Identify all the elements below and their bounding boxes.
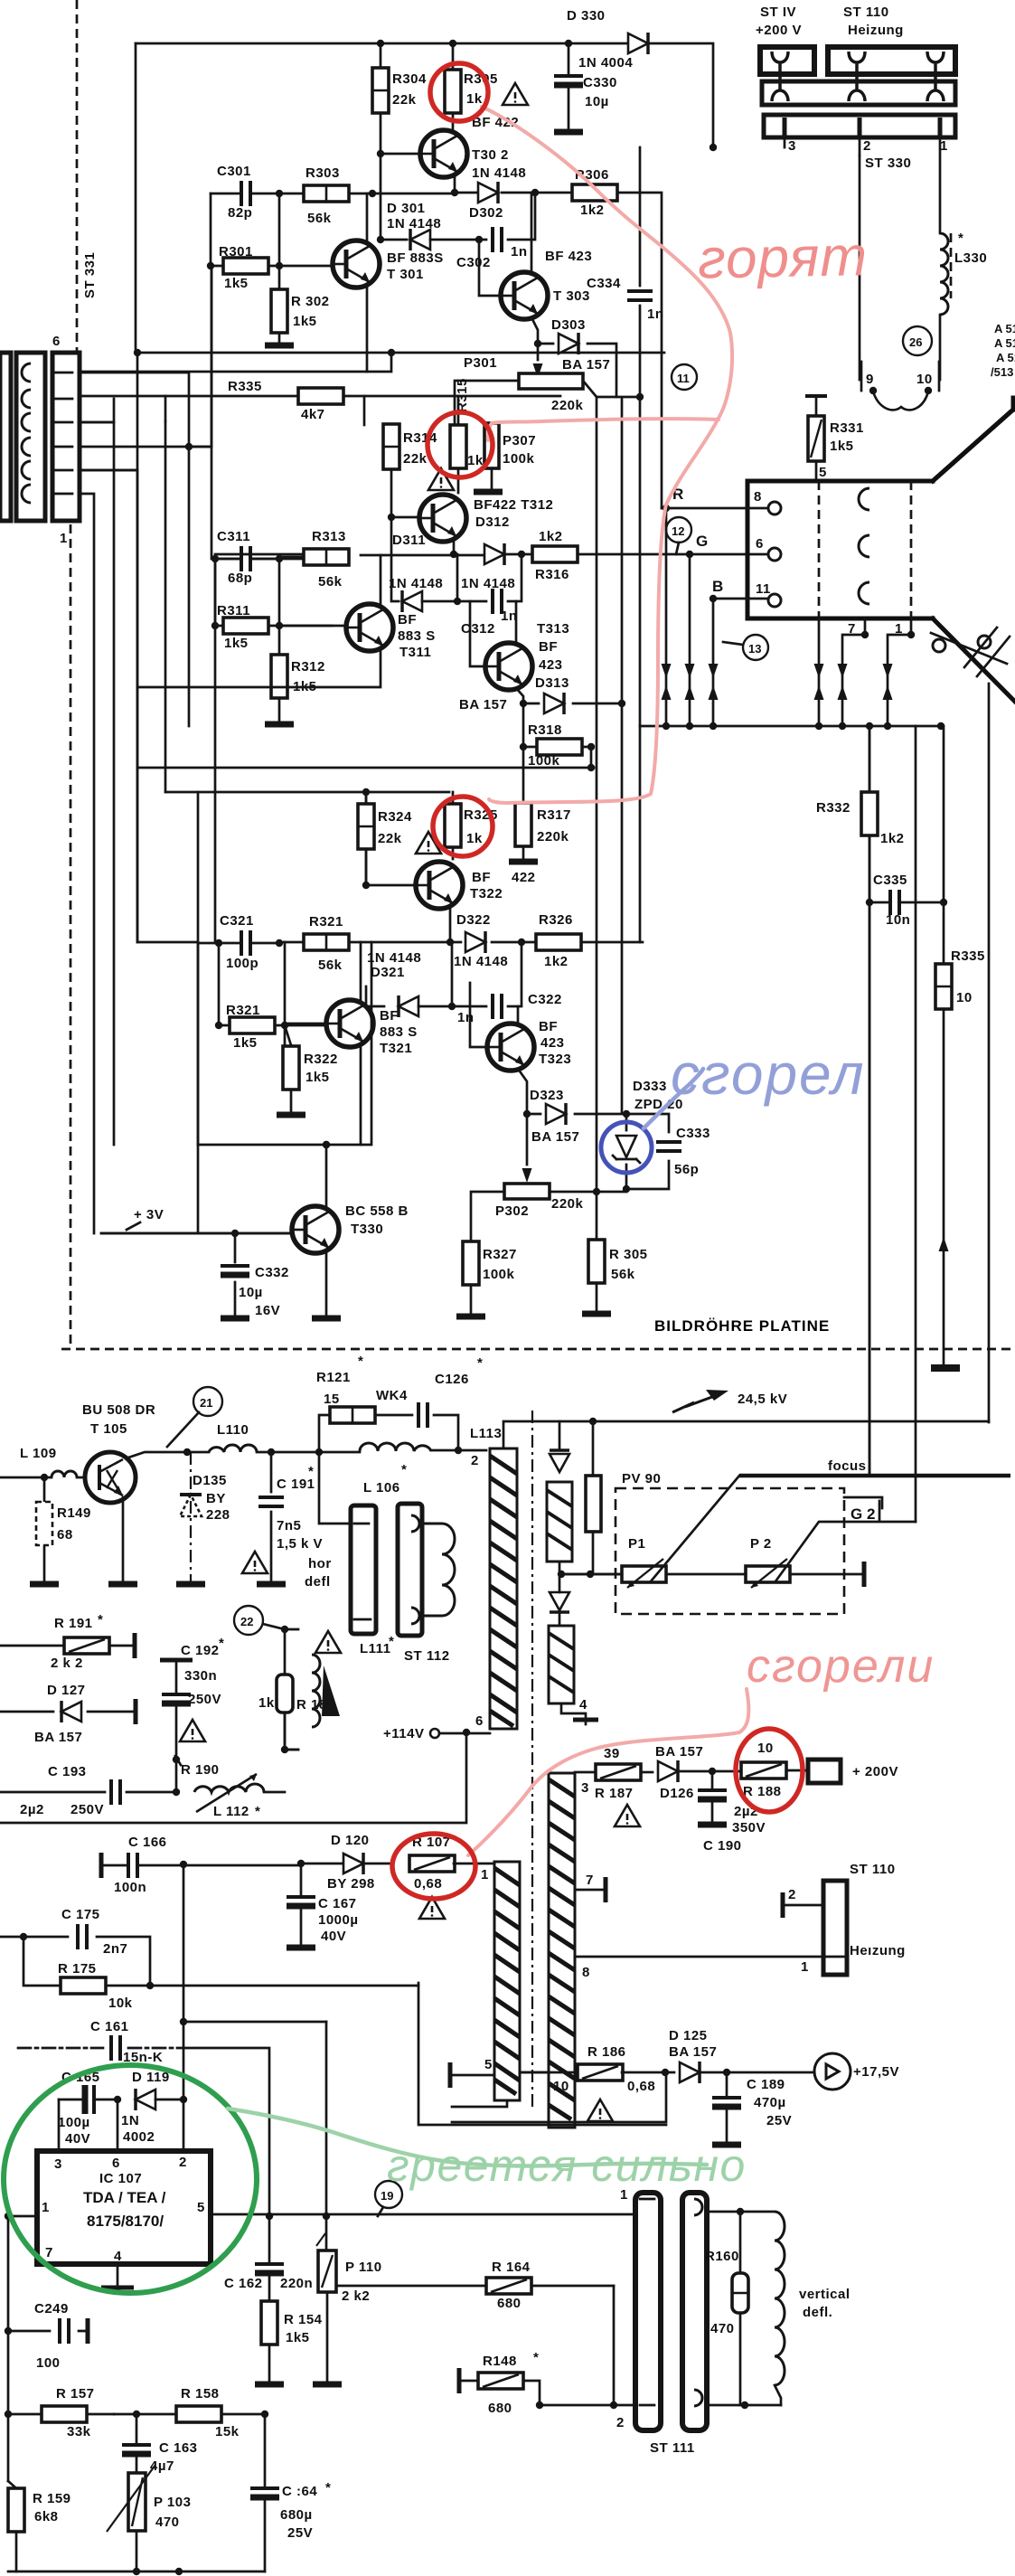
potentiometer P2: [746, 1536, 790, 1588]
wire C301R303 node down: [278, 193, 281, 266]
resistor R189 1k: [258, 1675, 335, 1750]
svg-text:470: 470: [710, 2321, 735, 2336]
wire base node down to D301: [381, 154, 407, 240]
svg-text:T30 2: T30 2: [472, 147, 509, 163]
svg-text:2 k2: 2 k2: [342, 2288, 370, 2304]
svg-text:BA 157: BA 157: [34, 1730, 82, 1745]
connector ST111 right bar: [682, 2193, 707, 2430]
svg-text:C 163: C 163: [159, 2440, 198, 2456]
transistor T302: [420, 130, 526, 181]
CRT funnel bottom diagonal: [933, 618, 1015, 702]
resistor R305b 56k: [588, 1240, 648, 1313]
svg-text:P 103: P 103: [154, 2495, 191, 2510]
connector block A: [760, 47, 814, 74]
wire y2236 line: [183, 2021, 326, 2024]
capacitor C301 82p: [217, 164, 252, 221]
transistor T323 BF423: [487, 1019, 571, 1071]
wire bundle vertical x152 upper: [136, 353, 139, 470]
svg-text:68p: 68p: [228, 571, 252, 586]
coil L111 small: [312, 1655, 340, 1727]
wire x516 down corner to long line: [0, 1732, 466, 1823]
wire T313 collector: [515, 601, 518, 645]
potentiometer P1: [622, 1536, 666, 1588]
svg-text:11: 11: [677, 372, 690, 385]
ground R149: [30, 1583, 59, 1585]
label R190 with arrow: [173, 1756, 220, 1778]
svg-text:250V: 250V: [188, 1692, 221, 1707]
svg-text:BF: BF: [472, 870, 491, 885]
diode D302: [469, 182, 503, 221]
svg-text:D322: D322: [456, 912, 491, 928]
capacitor C190 2u2 350V: [698, 1771, 766, 1854]
svg-text:D313: D313: [535, 675, 569, 691]
svg-text:R327: R327: [483, 1247, 517, 1262]
wire pin2 run: [79, 470, 137, 768]
wire EHT chain node: [559, 1562, 622, 1574]
resistor R154 1k5: [255, 2301, 323, 2384]
wire P110 down to ground: [313, 2292, 342, 2384]
wire pin3 line: [575, 1771, 597, 1774]
label +3V: [127, 1207, 164, 1230]
svg-text:4: 4: [114, 2249, 122, 2264]
capacitor C175 2n7: [20, 1907, 150, 1986]
wire D313 node down x683: [618, 700, 625, 707]
svg-text:T330: T330: [351, 1222, 383, 1237]
svg-text:1n: 1n: [511, 244, 528, 259]
wire T303 emitter to D303: [531, 317, 538, 344]
connector 9 10 bracket: [861, 362, 939, 410]
resistor R149 68 dashed: [36, 1477, 91, 1582]
resistor R303 56k: [304, 165, 349, 226]
capacitor C302 1n: [456, 227, 528, 270]
svg-text:9: 9: [866, 372, 874, 387]
svg-text:1N 4148: 1N 4148: [461, 576, 515, 591]
svg-text:A 51: A 51: [996, 351, 1015, 364]
svg-text:*: *: [255, 1804, 260, 1819]
resistor R121 15: [316, 1354, 375, 1452]
svg-text:56k: 56k: [611, 1267, 635, 1282]
wire R189 node to L112: [285, 1749, 298, 1751]
wire T323 base: [470, 983, 487, 1047]
svg-text:56k: 56k: [318, 574, 343, 590]
svg-text:BF: BF: [539, 1019, 558, 1034]
svg-text:C330: C330: [583, 75, 617, 90]
svg-text:T323: T323: [539, 1052, 571, 1067]
svg-text:R160: R160: [705, 2249, 739, 2264]
connector ST331 hooks: [22, 363, 31, 503]
hatched EHT resistor upper: [547, 1482, 572, 1562]
dashed heater line in socket: [818, 481, 821, 618]
svg-text:56k: 56k: [318, 958, 343, 973]
svg-text:10: 10: [956, 990, 973, 1005]
wire T323 emitter: [518, 1069, 527, 1114]
node top rail junctions: [377, 40, 384, 47]
svg-text:1k5: 1k5: [293, 314, 317, 329]
wire left frame vertical: [135, 43, 137, 353]
svg-text:R321: R321: [309, 914, 343, 929]
warning triangle hdefl: [242, 1552, 268, 1573]
svg-text:C333: C333: [676, 1126, 710, 1141]
wire T322 emitter: [449, 908, 452, 942]
circle ref 19: [375, 2181, 402, 2216]
svg-text:T 301: T 301: [387, 267, 424, 282]
wire T302 emitter to signal line: [454, 177, 456, 193]
svg-text:1n: 1n: [457, 1010, 475, 1025]
transformer bar right ST112: [398, 1504, 422, 1636]
svg-text:*: *: [98, 1612, 103, 1628]
svg-text:C 161: C 161: [90, 2019, 129, 2034]
resistor R148 680: [459, 2350, 543, 2416]
terminal +17.5V: [814, 2053, 899, 2090]
capacitor C193 2u2 250V: [0, 1764, 176, 1817]
wire P1 wiper diagonal to focus: [651, 1476, 739, 1581]
board border dashed bottom: [61, 1348, 1015, 1351]
label G2: [844, 1497, 882, 1523]
annotation red circle R315: [428, 412, 493, 477]
svg-text:L 112: L 112: [213, 1804, 249, 1819]
svg-text:R335: R335: [228, 379, 262, 394]
wire P110 wiper line to R164: [336, 2285, 485, 2288]
wire T311 base: [279, 625, 346, 627]
svg-text:P307: P307: [503, 433, 536, 448]
svg-text:7: 7: [586, 1873, 594, 1888]
wire R164 corner down to ST111 pin2: [613, 2286, 616, 2405]
svg-text:C 175: C 175: [61, 1907, 100, 1922]
svg-text:B: B: [712, 578, 723, 595]
terminal C166 left: [100, 1853, 102, 1878]
capacitor C164 680u 25V: [250, 2414, 331, 2571]
wire T321 collector: [360, 942, 362, 1002]
svg-text:2µ2: 2µ2: [20, 1802, 44, 1817]
svg-text:1000µ: 1000µ: [318, 1912, 359, 1928]
wire pin5 stub flyback: [450, 2057, 494, 2088]
transistor T312 BF422: [419, 495, 553, 542]
svg-text:BILDRÖHRE PLATINE: BILDRÖHRE PLATINE: [654, 1317, 830, 1335]
resistor R313 56k: [279, 529, 349, 590]
svg-text:Heizung: Heizung: [848, 23, 904, 38]
wire R306 output column x732 down to R node: [662, 507, 666, 510]
wire T321 base: [285, 1023, 326, 1025]
svg-text:4002: 4002: [123, 2129, 155, 2145]
wire T322 base: [366, 884, 416, 887]
svg-text:греется сильно: греется сильно: [387, 2140, 747, 2191]
svg-text:R 187: R 187: [595, 1786, 634, 1801]
svg-text:R 190: R 190: [181, 1762, 220, 1778]
wire line y1266: [198, 942, 371, 1145]
svg-text:+ 3V: + 3V: [134, 1207, 164, 1222]
svg-text:C302: C302: [456, 255, 491, 270]
svg-text:R 154: R 154: [284, 2312, 323, 2327]
potentiometer P110 2k2: [316, 2233, 382, 2304]
svg-text:1: 1: [60, 531, 68, 546]
svg-text:D 127: D 127: [47, 1683, 86, 1698]
svg-text:1k2: 1k2: [544, 954, 569, 969]
svg-text:defl.: defl.: [803, 2305, 832, 2320]
resistor R316 1k2: [532, 529, 578, 582]
svg-text:220k: 220k: [551, 398, 584, 413]
svg-text:R 186: R 186: [587, 2044, 626, 2060]
svg-text:2: 2: [788, 1887, 796, 1902]
svg-text:T311: T311: [399, 645, 431, 660]
svg-text:сгорел: сгорел: [671, 1042, 866, 1107]
ground R302: [265, 344, 294, 346]
diode EHT top: [550, 1421, 569, 1483]
wire bottom bus: [640, 725, 941, 728]
svg-text:+17,5V: +17,5V: [853, 2064, 899, 2080]
heater hooks inside socket: [859, 488, 869, 604]
label hor defl: [305, 1556, 332, 1590]
svg-text:2: 2: [179, 2155, 187, 2170]
svg-text:R313: R313: [312, 529, 346, 544]
diode D303: [538, 317, 616, 397]
coil L109: [20, 1446, 77, 1477]
svg-text:19: 19: [381, 2189, 393, 2203]
wire right bar top hook to coil: [707, 2211, 775, 2213]
svg-text:D302: D302: [469, 205, 503, 221]
svg-text:горят: горят: [698, 225, 869, 290]
fuse box +200V: [786, 1760, 898, 1783]
svg-text:L 106: L 106: [363, 1480, 400, 1496]
svg-text:1n: 1n: [647, 307, 664, 322]
svg-text:8: 8: [754, 489, 762, 505]
capacitor C333 56p: [626, 1114, 710, 1189]
diode D127 BA157: [0, 1683, 136, 1745]
svg-text:1,5 k V: 1,5 k V: [277, 1536, 323, 1552]
svg-text:40V: 40V: [321, 1929, 346, 1944]
warning triangle stage1: [503, 83, 528, 105]
svg-text:330n: 330n: [184, 1668, 217, 1684]
svg-text:T321: T321: [380, 1041, 412, 1056]
connector ST110b box: [783, 1862, 906, 1975]
svg-text:16V: 16V: [255, 1303, 280, 1318]
wire P2 wiper diagonal to G2: [775, 1501, 916, 1581]
svg-text:*: *: [308, 1464, 314, 1479]
capacitor C330: [554, 43, 617, 132]
svg-text:D126: D126: [660, 1786, 694, 1801]
coil L110: [209, 1422, 257, 1452]
svg-text:*: *: [358, 1354, 363, 1369]
svg-text:R315: R315: [455, 378, 470, 412]
wire heater drop x906: [814, 618, 824, 726]
wiper arrow into P301: [537, 344, 540, 360]
wire P302 node to zener bottom: [550, 1189, 626, 1192]
svg-text:R121: R121: [316, 1370, 351, 1385]
svg-text:R317: R317: [537, 807, 571, 823]
wire bundle x238 to stage3: [215, 559, 219, 943]
wire T330 collector: [325, 1145, 328, 1208]
svg-text:C335: C335: [873, 873, 907, 888]
resistor R325 1k: [445, 792, 498, 859]
transistor T330 BC558B: [292, 1203, 409, 1253]
capacitor C249 100: [5, 2301, 88, 2371]
svg-text:R318: R318: [528, 722, 562, 738]
resistor R191 2k2: [0, 1612, 135, 1671]
svg-text:C312: C312: [461, 621, 495, 637]
svg-text:15: 15: [324, 1392, 340, 1407]
svg-text:21: 21: [200, 1396, 212, 1410]
svg-text:defl: defl: [305, 1574, 331, 1590]
wire pin2 down: [859, 156, 861, 380]
capacitor C311 68p: [211, 529, 283, 586]
svg-text:C322: C322: [528, 992, 562, 1007]
wire left input to T105: [0, 1477, 85, 1479]
IC107 box: [37, 2151, 211, 2264]
svg-text:1k5: 1k5: [224, 276, 249, 291]
svg-text:ST 330: ST 330: [865, 156, 911, 171]
wire R317 node: [522, 747, 525, 803]
transistor T313 BF423: [485, 621, 569, 691]
svg-text:10: 10: [553, 2079, 569, 2094]
capacitor C334 1n: [587, 276, 664, 322]
spark gap circles on funnel: [931, 627, 1010, 676]
svg-text:33k: 33k: [67, 2424, 91, 2439]
resistor R315 1k: [450, 378, 484, 493]
svg-text:1k2: 1k2: [880, 831, 905, 846]
label L111 ST112: [360, 1634, 450, 1664]
svg-text:сгорели: сгорели: [747, 1640, 935, 1693]
svg-text:*: *: [219, 1636, 224, 1651]
svg-text:C :64: C :64: [282, 2484, 317, 2499]
svg-text:100n: 100n: [114, 1880, 146, 1895]
svg-text:BA 157: BA 157: [531, 1129, 579, 1145]
coil L106 primary: [360, 1443, 431, 1496]
svg-text:1N 4148: 1N 4148: [454, 954, 508, 969]
label L113 and pin2: [470, 1426, 502, 1468]
wire R drop with connector arrows: [662, 508, 672, 726]
hatched EHT resistor lower: [549, 1626, 574, 1703]
svg-text:D 330: D 330: [567, 8, 606, 24]
svg-text:82p: 82p: [228, 205, 252, 221]
resistor R305 1k: [445, 43, 498, 131]
wire bundle x183 down: [164, 421, 167, 792]
svg-text:3: 3: [788, 138, 796, 154]
svg-text:6k8: 6k8: [34, 2509, 59, 2524]
wire bottom rail: [8, 2571, 265, 2573]
svg-text:R 159: R 159: [33, 2491, 71, 2506]
svg-text:L330: L330: [954, 250, 987, 266]
capacitor C335 10n: [869, 873, 944, 928]
svg-text:1k5: 1k5: [224, 636, 249, 651]
wire +3V line: [101, 1145, 291, 1233]
svg-text:1k: 1k: [258, 1695, 275, 1711]
svg-text:BC 558 B: BC 558 B: [345, 1203, 409, 1219]
svg-text:6: 6: [52, 334, 61, 349]
wire C321 left vertical to R321b: [218, 943, 221, 1025]
ground R312: [265, 723, 294, 725]
coil L112 variable: [173, 1774, 285, 1819]
svg-text:R335: R335: [951, 948, 985, 964]
resistor R314 22k: [383, 424, 437, 517]
svg-text:0,68: 0,68: [414, 1876, 442, 1892]
svg-text:BA 157: BA 157: [562, 357, 610, 373]
CRT funnel top diagonal: [933, 398, 1013, 481]
svg-text:R324: R324: [378, 809, 412, 825]
svg-text:1N 4148: 1N 4148: [389, 576, 443, 591]
svg-text:470µ: 470µ: [754, 2095, 786, 2110]
board border dashed left vertical: [70, 0, 77, 1349]
svg-text:G 2: G 2: [851, 1505, 875, 1523]
resistor R175 10k: [0, 1937, 418, 2011]
svg-text:680: 680: [488, 2401, 512, 2416]
wire T105 emitter: [122, 1497, 125, 1582]
svg-text:BF422 T312: BF422 T312: [474, 497, 553, 513]
svg-text:P302: P302: [495, 1203, 529, 1219]
svg-text:5: 5: [819, 465, 827, 480]
svg-text:L111: L111: [360, 1641, 391, 1656]
wire B drop with connector arrows: [709, 599, 719, 726]
svg-text:D321: D321: [371, 965, 405, 980]
svg-text:C 166: C 166: [128, 1835, 167, 1850]
wire far right vertical x1094: [988, 684, 991, 1422]
wire signal line y613: [215, 554, 317, 559]
wire R175 corner down x463: [418, 1983, 666, 2125]
svg-text:10: 10: [916, 372, 933, 387]
wire socket pin7 stub: [838, 618, 869, 726]
capacitor C165 100u 40V: [58, 2070, 121, 2147]
svg-text:2 k 2: 2 k 2: [51, 1656, 83, 1671]
wire T105 collector line: [128, 1450, 486, 1458]
terminal end of pot line: [863, 1562, 865, 1587]
annotation pink curve to R188: [468, 1689, 748, 1855]
svg-text:R304: R304: [392, 71, 427, 87]
svg-text:39: 39: [604, 1746, 620, 1761]
hatched bar flyback left: [494, 1862, 520, 2100]
ground R327: [456, 1316, 485, 1317]
svg-text:D311: D311: [392, 533, 426, 548]
svg-text:T322: T322: [470, 886, 503, 901]
svg-text:R303: R303: [305, 165, 340, 181]
svg-text:R316: R316: [535, 567, 569, 582]
svg-text:350V: 350V: [732, 1820, 766, 1835]
svg-text:25V: 25V: [766, 2113, 792, 2128]
transistor T303 BF423: [501, 249, 592, 319]
svg-text:470: 470: [155, 2515, 180, 2530]
svg-text:T 303: T 303: [553, 288, 590, 304]
diode D125 BA157: [669, 2028, 813, 2083]
wire pin3 run: [79, 447, 189, 726]
svg-text:ST 331: ST 331: [82, 252, 98, 298]
capacitor C312 1n: [457, 554, 522, 637]
wire T301 emitter: [366, 286, 369, 372]
svg-text:P 2: P 2: [750, 1536, 772, 1552]
resistor R311 1k5: [211, 603, 332, 651]
svg-text:BF: BF: [380, 1008, 399, 1024]
wire socket pin1 stub: [883, 618, 916, 726]
resistor R301 1k5: [207, 244, 332, 291]
svg-text:R311: R311: [217, 603, 250, 618]
EHT arrow 24.5kV: [672, 1390, 787, 1412]
wire T301 collector: [366, 193, 369, 242]
wire T302 base from R304: [381, 153, 420, 156]
capacitor C161 15n: [18, 2019, 183, 2065]
diode D311b lower: [402, 590, 461, 612]
svg-text:13: 13: [748, 642, 761, 656]
svg-text:vertical: vertical: [799, 2287, 851, 2302]
capacitor C191 7n5 1.5kV: [257, 1452, 323, 1584]
wire column x706 C334: [639, 147, 642, 942]
resistor R306 1k2: [572, 167, 617, 218]
zener D333 ZPD20: [613, 1079, 683, 1189]
svg-text:BF: BF: [398, 612, 417, 627]
svg-text:2: 2: [616, 2415, 625, 2430]
svg-text:R 175: R 175: [58, 1961, 97, 1977]
PV90 dashed box: [616, 1471, 844, 1614]
svg-text:423: 423: [539, 657, 563, 673]
capacitor C162 220n: [224, 2216, 313, 2302]
annotation red ellipse R188: [736, 1729, 803, 1812]
transistor T311 BF883S: [346, 604, 436, 660]
wire top supply rail: [136, 43, 713, 147]
